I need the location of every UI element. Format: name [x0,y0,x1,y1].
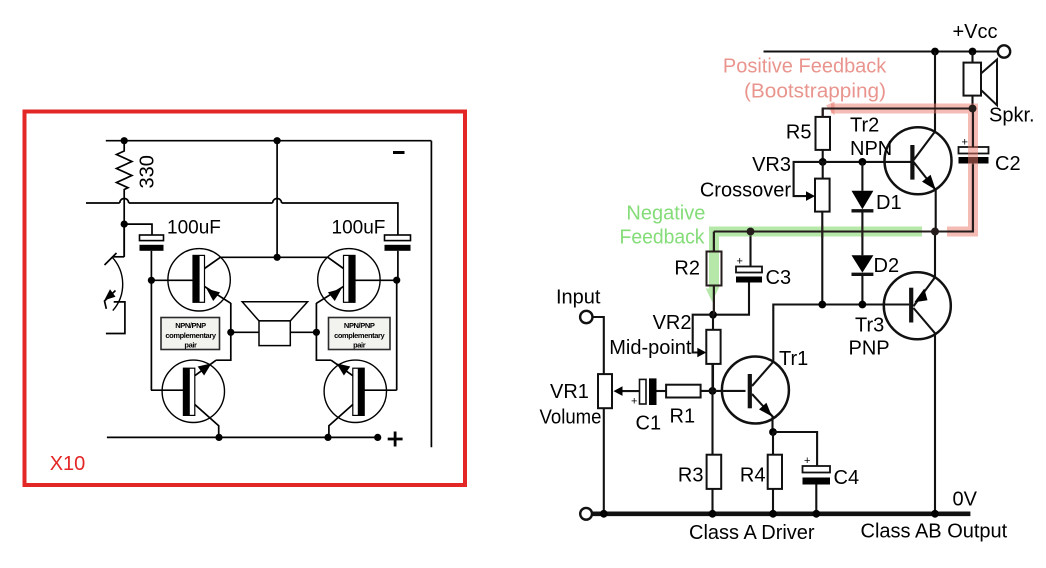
svg-text:+: + [737,256,743,268]
svg-text:C3: C3 [766,267,792,289]
wire left base drop [150,280,152,390]
node left pair base junction [148,277,155,284]
svg-text:D2: D2 [874,255,900,277]
wire R3 to 0V rail [711,489,713,512]
transistor Tr2 [885,52,952,232]
svg-text:Spkr.: Spkr. [989,105,1035,127]
speaker (left panel) [242,302,307,346]
highlight negative feedback path (green) [709,232,922,289]
svg-text:R5: R5 [786,122,812,144]
capacitor 100uF right [385,235,411,280]
node rail/Tr3 collector [931,510,939,518]
node output (emitters) [931,228,939,236]
svg-text:Tr2: Tr2 [850,115,879,137]
wire junction down to clipped transistor collector [123,224,125,257]
svg-text:PNP: PNP [849,338,890,360]
svg-text:Mid-point: Mid-point [609,337,692,359]
hop over resistor wire [120,199,129,204]
highlight positive feedback path (pink) [831,109,973,232]
capacitor C4 [803,466,831,512]
node collector tie (top pair) [274,254,281,261]
wire right vertical (left panel) [430,141,432,448]
resistor R5 [816,117,831,150]
node speaker left [227,329,234,336]
wire overdraw on highlight bands [707,105,977,315]
svg-text:+Vcc: +Vcc [953,21,998,43]
svg-text:Crossover: Crossover [700,180,791,202]
svg-text:D1: D1 [876,192,902,214]
node bottom rail right [324,434,331,441]
resistor 330 (zigzag) [117,141,132,224]
svg-text:C2: C2 [995,153,1021,175]
wire VR2 bottom through base node to R3 [711,364,713,455]
svg-text:330: 330 [136,155,158,188]
svg-text:Tr3: Tr3 [855,315,884,337]
svg-text:complementary: complementary [334,331,385,340]
wire second rail with hops [86,203,398,235]
wire junction to left 100uF cap top [124,224,152,235]
wire right base drop [396,280,398,390]
svg-text:Class A Driver: Class A Driver [689,522,815,544]
resistor R1 [666,385,701,398]
potentiometer VR2 [693,315,721,391]
svg-text:Positive Feedback: Positive Feedback [723,56,887,78]
npn/pnp pair label right [329,318,391,350]
wire input to VR1 [593,317,604,374]
capacitor C1 [640,378,667,405]
svg-text:Negative: Negative [626,203,705,225]
wire Tr1 collector to Tr3 base [773,305,862,363]
terminal input [580,311,592,323]
wire C2 bottom to output node [935,230,973,232]
transistor Tr1 [722,357,789,433]
node rail/C4 [812,510,820,518]
terminal +Vcc [998,45,1010,57]
transistor top-right (of pair) [316,249,396,311]
transistor Tr3 [862,272,950,511]
node Tr1 base [709,387,717,395]
node top-middle junction [274,137,281,144]
svg-text:NPN/PNP: NPN/PNP [175,321,206,330]
node NFB/C3 [747,228,755,236]
wire emitter Tr2 / Tr3 to output node [934,232,936,278]
diode D2 [852,255,874,304]
svg-text:C1: C1 [636,413,662,435]
svg-text:pair: pair [353,341,366,350]
svg-text:100uF: 100uF [332,218,386,239]
wire emitter node to R4 and C4 [773,432,817,466]
svg-text:Tr1: Tr1 [779,348,808,370]
wire right emitter vertical [316,303,331,360]
node bottom rail left [215,434,222,441]
node rail/R4 [769,510,777,518]
wire base node to Tr2 [823,161,911,163]
svg-text:+: + [962,137,968,149]
speaker Spkr. [964,60,998,106]
svg-text:Feedback: Feedback [620,227,706,249]
svg-text:VR2: VR2 [653,312,692,334]
node rail/R3 [709,510,717,518]
wire speaker to C2 node [971,96,973,109]
svg-text:Class AB Output: Class AB Output [861,521,1008,543]
wire +Vcc rail [764,50,998,52]
svg-text:VR3: VR3 [752,154,791,176]
node mid-point [709,311,717,319]
wire rail to speaker [971,52,973,63]
wire collector tie horizontal [220,256,327,258]
capacitor C2 [959,109,989,232]
label minus (left panel) [393,151,405,154]
wire R5 to base node [822,150,824,162]
svg-text:NPN/PNP: NPN/PNP [344,321,375,330]
potentiometer VR1 [598,374,640,511]
potentiometer VR3 [794,162,830,305]
transistor clipped at left edge [104,224,125,333]
wire base node to Tr1 [701,390,746,392]
wire speaker leads [231,331,317,333]
node VR3 bottom [818,301,826,309]
svg-text:C4: C4 [834,467,860,489]
svg-text:Volume: Volume [540,407,602,429]
svg-text:complementary: complementary [165,331,216,340]
wire middle vertical [276,141,278,258]
node rail/collector Tr2 [931,48,939,56]
node speaker right [313,329,320,336]
node bottom rail plus terminal [374,434,381,441]
svg-text:100uF: 100uF [167,218,221,239]
label plus (left panel) [388,432,403,447]
transistor top-left (of pair) [151,249,230,311]
frame X10 red border [25,112,466,486]
resistor R2 [707,232,722,315]
node Tr2 base [819,158,827,166]
rail 0V [592,511,970,516]
svg-text:X10: X10 [50,453,86,475]
transistor bottom-right (of pair) [324,360,397,437]
npn/pnp pair label left [161,318,220,350]
node top-left junction [121,137,128,144]
node rail/VR1 [600,510,608,518]
node Tr1 emitter [769,428,777,436]
resistor R4 [768,455,782,489]
svg-text:+: + [804,455,810,467]
wire R4 to 0V rail [772,489,774,512]
wire negative feedback run [714,230,973,232]
svg-text:R2: R2 [674,258,700,280]
node D2 bottom [859,301,867,309]
svg-text:NPN: NPN [850,138,892,160]
resistor R3 [707,455,722,489]
node right pair base junction [393,277,400,284]
highlight pink arrow tip [826,102,835,116]
highlight green arrow head [706,289,719,303]
node speaker/C2/bootstrap [969,105,977,113]
svg-text:R3: R3 [678,465,704,487]
terminal 0V left [580,508,592,520]
svg-text:VR1: VR1 [550,381,589,403]
svg-text:0V: 0V [953,489,978,511]
node resistor-bottom junction [121,221,128,228]
svg-text:R1: R1 [670,406,696,428]
node rail/speaker [969,48,977,56]
diode D1 [852,162,874,255]
svg-text:Input: Input [556,287,601,309]
capacitor 100uF left [140,235,164,280]
svg-text:(Bootstrapping): (Bootstrapping) [744,81,886,103]
svg-text:pair: pair [184,341,197,350]
hop over middle wire [273,199,282,204]
svg-text:R4: R4 [740,465,766,487]
node D1 top [859,158,867,166]
capacitor C3 [714,232,762,315]
wire bootstrap R5 top [823,109,973,117]
wire bottom rail (left panel) [107,436,380,438]
wire top rail (left panel) [106,140,432,142]
transistor bottom-left (of pair) [151,360,225,437]
svg-text:+: + [631,396,637,408]
wire left emitter vertical [216,303,231,360]
